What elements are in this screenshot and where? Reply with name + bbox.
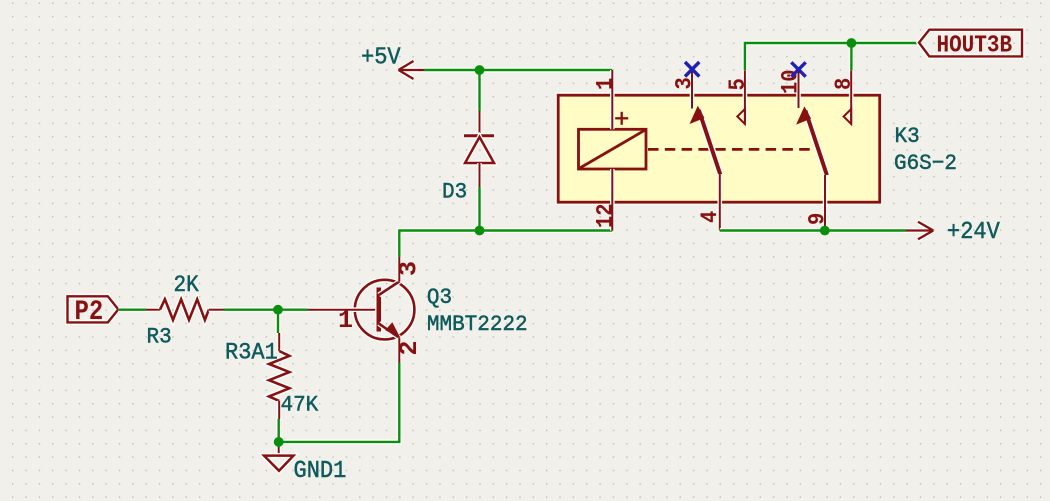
svg-text:3: 3 — [672, 77, 698, 89]
junction diode top — [475, 65, 485, 75]
transistor emitter arrow — [385, 322, 400, 338]
resistor R3A1 — [269, 333, 289, 419]
relay pin 10 — [778, 69, 804, 108]
no-connect X pin 3 — [685, 62, 699, 77]
hierarchical label P2 — [68, 296, 119, 328]
svg-text:2K: 2K — [174, 272, 200, 298]
svg-text:D3: D3 — [442, 180, 467, 205]
relay switch arm A pins 3-4 — [690, 106, 721, 175]
hierarchical label HOUT3B — [919, 30, 1022, 59]
svg-text:4: 4 — [697, 211, 723, 223]
svg-text:3: 3 — [394, 261, 423, 276]
svg-text:1: 1 — [338, 306, 353, 335]
label Q3 — [427, 286, 452, 311]
pin number 2 Q3 — [395, 340, 424, 355]
label +24V — [947, 218, 1000, 245]
relay pin 4 — [697, 174, 723, 231]
relay coil polarity plus — [615, 112, 628, 125]
svg-text:MMBT2222: MMBT2222 — [427, 313, 528, 338]
svg-text:G6S−2: G6S−2 — [894, 152, 957, 177]
wire R3 to base node — [224, 307, 308, 312]
wire pin 8 drop — [849, 43, 854, 70]
label +5V — [361, 44, 401, 71]
svg-text:R3: R3 — [147, 325, 172, 350]
svg-text:+24V: +24V — [947, 218, 1000, 245]
svg-text:2: 2 — [395, 340, 424, 355]
power arrow +24V — [906, 222, 933, 240]
resistor R3 — [146, 299, 224, 320]
no-connect X pin 10 — [791, 62, 805, 76]
relay contact pin 8 — [831, 70, 857, 124]
junction base node — [273, 305, 283, 315]
junction HOUT3B pin 8 — [847, 38, 857, 48]
svg-text:9: 9 — [805, 213, 831, 225]
junction ground node — [274, 437, 284, 447]
relay K3 body — [558, 95, 880, 202]
relay pin 9 — [805, 175, 831, 231]
svg-text:K3: K3 — [895, 125, 920, 150]
wire pin 5 to HOUT3B — [745, 43, 919, 70]
label 47K — [281, 393, 319, 418]
wire diode top — [477, 70, 482, 112]
wire P2 to R3 — [118, 307, 146, 312]
junction diode bottom — [475, 226, 485, 236]
wire +24V bus — [720, 228, 906, 233]
label MMBT2222 — [427, 313, 528, 338]
label 2K — [174, 272, 200, 298]
junction pin 9 bus — [820, 226, 830, 236]
label R3 — [147, 325, 172, 350]
label R3A1 — [225, 339, 278, 366]
svg-text:47K: 47K — [281, 393, 319, 418]
ground stub — [276, 442, 281, 449]
wire base — [278, 307, 308, 312]
relay switch arm B pins 10-9 — [796, 106, 827, 175]
svg-text:Q3: Q3 — [427, 286, 452, 311]
transistor Q3 — [308, 257, 415, 363]
relay contact pin 5 — [725, 70, 751, 124]
svg-text:R3A1: R3A1 — [225, 339, 278, 366]
svg-text:P2: P2 — [75, 296, 104, 328]
relay pin 1 — [593, 70, 619, 129]
pin number 1 Q3 — [338, 306, 353, 335]
wire R3A1 to ground node — [276, 419, 281, 442]
svg-text:12: 12 — [593, 203, 619, 228]
svg-text:+5V: +5V — [361, 44, 401, 71]
relay pin 3 — [672, 69, 698, 108]
svg-text:1: 1 — [593, 78, 619, 90]
label D3 — [442, 180, 467, 205]
wire Q3 collector to relay pin 12 — [399, 231, 612, 258]
relay pin 12 — [593, 169, 619, 231]
label K3 — [895, 125, 920, 150]
wire +5V rail — [423, 68, 612, 73]
ground GND1 — [264, 448, 294, 471]
diode D3 — [464, 111, 494, 188]
power arrow +5V — [399, 61, 425, 79]
relay coil — [579, 129, 647, 169]
svg-text:GND1: GND1 — [294, 457, 347, 484]
svg-text:5: 5 — [725, 78, 751, 90]
wire ground bus to emitter — [279, 362, 400, 442]
label G6S-2 — [894, 152, 957, 177]
svg-text:8: 8 — [831, 78, 857, 90]
svg-text:HOUT3B: HOUT3B — [937, 31, 1013, 59]
wire diode bottom — [477, 187, 482, 231]
wire base node down — [276, 310, 281, 334]
label GND1 — [294, 457, 347, 484]
relay dashed actuator line — [648, 148, 813, 151]
pin number 3 Q3 — [394, 261, 423, 276]
